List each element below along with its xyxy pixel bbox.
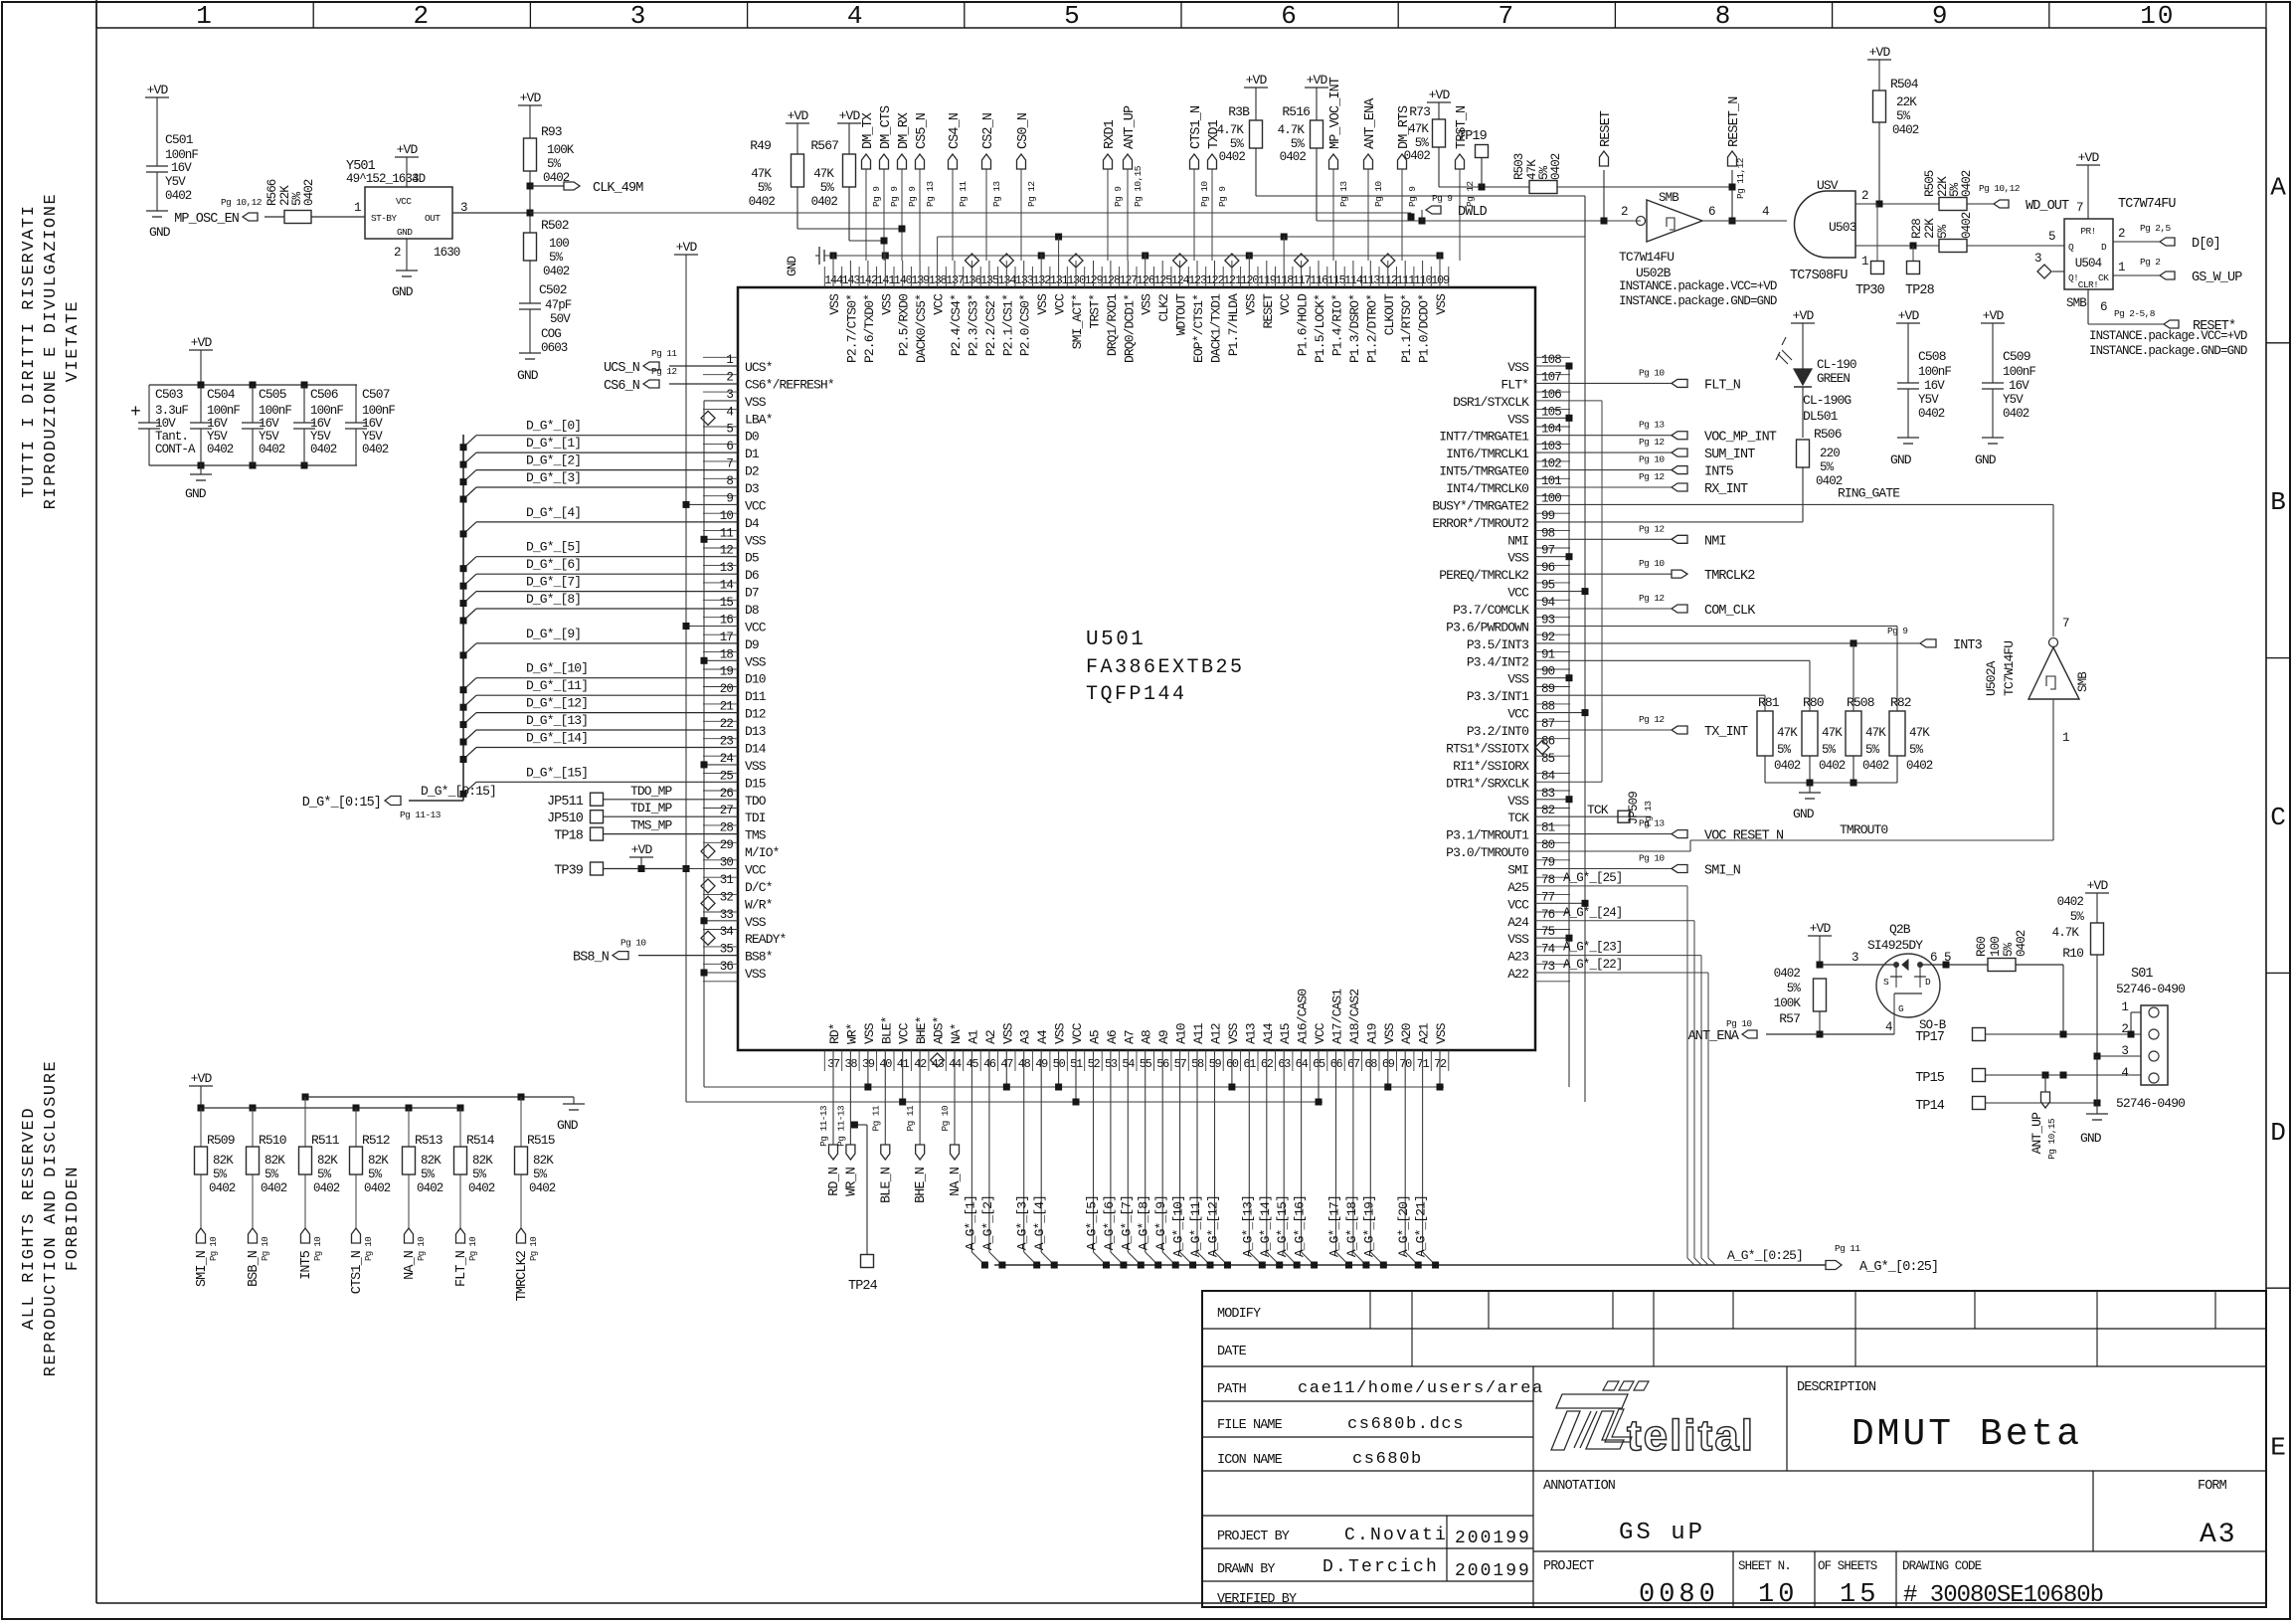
svg-text:D_G*_[15]: D_G*_[15] [526,765,588,780]
U501 pin 71 A21 [1417,1022,1432,1071]
svg-text:D_G*_[7]: D_G*_[7] [526,575,581,590]
net GS_W_UP [2113,257,2242,285]
svg-text:DRQ0/DCD1*: DRQ0/DCD1* [1122,294,1137,363]
net flag INT5 [299,1228,323,1280]
svg-text:A2: A2 [983,1030,998,1044]
svg-text:C505: C505 [259,387,286,402]
svg-text:10: 10 [1758,1580,1798,1610]
svg-text:A_G*_[5]: A_G*_[5] [1085,1195,1100,1250]
U501 pin 81 P3.1/TMROUT1 [1446,821,1554,843]
svg-text:Q: Q [2068,242,2074,253]
svg-text:A_G*_[19]: A_G*_[19] [1361,1195,1376,1257]
svg-text:D6: D6 [745,568,759,583]
test point TP19 [1458,129,1489,187]
title block field values [1298,1379,1544,1581]
net flag CS4_N [948,112,969,261]
svg-text:+VD: +VD [676,240,698,255]
net flag CTS1_N [1189,105,1210,261]
U501 pin 78 A25 [1507,873,1554,895]
U501 pin 95 VCC [1507,579,1554,601]
svg-text:C501: C501 [165,132,194,147]
test point TP14 [1915,1097,1985,1115]
net MP_OSC_EN [174,197,284,227]
wire A_G*_[9] [1153,1050,1179,1269]
resistor R512 [350,1108,391,1228]
svg-text:VCC: VCC [932,293,947,315]
U501 pin 137 P2.4/CS4* [946,273,965,356]
U501 pin 101 INT4/TMRCLK0 [1446,474,1561,496]
resistor R28 [1910,212,2065,252]
svg-text:A_G*_[14]: A_G*_[14] [1258,1195,1273,1257]
svg-text:A21: A21 [1417,1022,1432,1044]
svg-text:0402: 0402 [749,195,776,209]
U501 pin 62 A14 [1261,1022,1276,1071]
wire A_G*_[25] [1535,871,1694,1265]
U501 pin 55 A8 [1140,1030,1154,1071]
net flag TMRCLK2 [1535,558,1755,584]
svg-text:CS2_N: CS2_N [981,112,996,149]
wire D_G*_[13] [460,713,739,746]
svg-text:RD*: RD* [827,1023,842,1044]
U501 pin 107 FLT* [1500,370,1561,392]
U501 pin 20 D11 [720,682,767,704]
U501 pin 65 VCC [1313,1022,1327,1071]
svg-text:79: 79 [1541,856,1555,870]
svg-text:VCC: VCC [745,498,767,513]
test point TP24 [848,1122,878,1295]
svg-text:29: 29 [720,838,734,852]
svg-text:16V: 16V [259,417,279,431]
svg-text:A19: A19 [1364,1023,1379,1044]
svg-text:0402: 0402 [1892,123,1919,137]
net WR_N [835,1050,859,1196]
wire P3.4 INT2 [1535,660,1810,711]
svg-text:A_G*_[21]: A_G*_[21] [1414,1195,1429,1257]
svg-text:+VD: +VD [1898,308,1920,323]
svg-text:200199: 200199 [1455,1561,1531,1581]
svg-text:113: 113 [1361,273,1380,287]
svg-text:W/R*: W/R* [745,897,773,912]
capacitor C507 [345,385,395,465]
svg-text:P2.0/CS0*: P2.0/CS0* [1018,294,1033,356]
svg-text:35: 35 [720,943,734,957]
svg-text:CLK2: CLK2 [1156,294,1171,322]
svg-text:U501: U501 [1086,629,1146,651]
VCC rail right of U501 [1535,237,1589,1102]
svg-text:Pg 10: Pg 10 [364,1237,374,1261]
svg-text:25: 25 [720,769,734,783]
U501 pin 13 D6 [720,561,759,583]
left margin copyright text english [20,1060,83,1377]
svg-text:96: 96 [1541,561,1555,575]
svg-text:23: 23 [720,735,734,749]
svg-text:0402: 0402 [1219,150,1246,164]
svg-text:VSS: VSS [1000,1022,1015,1044]
left margin copyright text italian [20,193,83,510]
resistor R503 [1439,153,1733,193]
svg-text:VSS: VSS [827,293,842,315]
resistor R81 [1757,695,1801,783]
capacitor C509 [1975,308,2035,467]
top +VD bus [938,234,1585,241]
svg-text:Pg 10: Pg 10 [468,1237,478,1261]
svg-text:P1.3/DSRO*: P1.3/DSRO* [1347,294,1362,363]
net WD_OUT [1979,183,2069,214]
net flag TMRCLK2 [515,1228,539,1301]
svg-text:D_G*_[5]: D_G*_[5] [526,540,581,555]
svg-text:119: 119 [1258,273,1277,287]
wire D_G*_[4] [460,505,739,538]
svg-text:130: 130 [1067,273,1086,287]
wire D_G*_[0] [460,419,739,451]
svg-text:5: 5 [1064,1,1082,31]
svg-text:Pg 10: Pg 10 [1199,181,1210,207]
U501 pin 39 VSS [862,1022,877,1071]
net NA_N [940,1050,964,1196]
svg-text:U503: U503 [1829,220,1856,235]
svg-text:C509: C509 [2003,349,2030,364]
svg-text:MP_VOC_INT: MP_VOC_INT [1328,77,1343,149]
svg-text:P1.7/HLDA: P1.7/HLDA [1226,293,1241,356]
svg-text:U502A: U502A [1984,660,1999,696]
diamond marker pin 34 [701,931,715,945]
wire A_G*_[16] [1293,1050,1319,1269]
svg-text:A_G*_[4]: A_G*_[4] [1032,1195,1047,1250]
+VD rail left of U501 [674,240,1323,1106]
net flag DM_RTS [1397,105,1418,261]
svg-text:82K: 82K [213,1154,234,1168]
U501 pin 64 A16/CAS0 [1296,990,1311,1071]
svg-text:D: D [2270,1118,2286,1148]
svg-text:A3: A3 [1018,1030,1033,1044]
svg-text:TP17: TP17 [1915,1030,1945,1045]
svg-text:cs680b.dcs: cs680b.dcs [1347,1415,1465,1434]
svg-text:BS8*: BS8* [745,950,773,965]
svg-text:Pg 10,15: Pg 10,15 [1133,165,1144,207]
svg-text:CL-190G: CL-190G [1803,393,1851,408]
svg-text:D_G*_[6]: D_G*_[6] [526,557,581,572]
U501 pin 92 P3.5/INT3 [1467,631,1555,652]
svg-text:P2.3/CS3*: P2.3/CS3* [966,294,980,356]
svg-text:120: 120 [1240,273,1259,287]
svg-text:88: 88 [1541,700,1555,714]
svg-text:A_G*_[0:25]: A_G*_[0:25] [1859,1260,1938,1275]
U501 pin 23 D14 [720,735,767,757]
U501 pin 3 VSS [726,388,766,410]
svg-text:Pg 12: Pg 12 [1639,714,1665,725]
top GND bus [786,247,1444,276]
svg-text:24: 24 [720,752,734,766]
resistor R60 [1940,930,2063,1034]
svg-text:R514: R514 [466,1133,495,1148]
svg-text:19: 19 [720,665,734,679]
svg-text:A_G*_[12]: A_G*_[12] [1206,1195,1221,1257]
svg-text:A_G*_[3]: A_G*_[3] [1015,1195,1030,1250]
svg-text:PATH: PATH [1217,1382,1247,1397]
U501 pin 144 VSS [824,273,843,315]
svg-text:A_G*_[20]: A_G*_[20] [1396,1195,1411,1257]
U501 right pin ladder [1535,357,1570,982]
svg-text:NMI: NMI [1704,534,1726,549]
svg-text:33: 33 [720,908,734,922]
svg-text:GND: GND [557,1118,579,1133]
svg-text:139: 139 [911,273,930,287]
svg-text:0402: 0402 [165,189,192,203]
svg-text:P3.2/INT0: P3.2/INT0 [1467,724,1528,739]
svg-text:VSS: VSS [745,759,767,774]
U501 pin 91 P3.4/INT2 [1467,647,1555,669]
svg-text:WR_N: WR_N [844,1167,859,1196]
svg-text:47K: 47K [813,167,834,181]
svg-text:DTR1*/SRXCLK: DTR1*/SRXCLK [1446,776,1529,791]
capacitor C504 [190,385,240,465]
U501 pin 47 VSS [1000,1022,1015,1071]
svg-text:COG: COG [541,327,561,341]
svg-text:Y5V: Y5V [165,175,186,189]
U501 pin 85 RI1*/SSIORX [1453,752,1555,774]
svg-text:6: 6 [726,440,733,453]
resistor R82 [1889,695,1933,783]
U501 pin 8 D3 [726,474,759,496]
svg-text:Pg 10,12: Pg 10,12 [221,197,263,208]
resistor bank supply [189,1071,585,1133]
svg-text:0402: 0402 [1862,759,1889,773]
svg-text:144: 144 [824,273,843,287]
U501 pin 126 VSS [1137,273,1155,315]
svg-text:P3.4/INT2: P3.4/INT2 [1467,654,1528,669]
svg-text:127: 127 [1119,273,1138,287]
wire D_G*_[9] [460,627,739,659]
U501 pin 69 VSS [1382,1022,1397,1071]
svg-text:0402: 0402 [362,443,389,456]
svg-text:4: 4 [1885,1020,1892,1034]
flip-flop U504 [2064,150,2176,290]
svg-text:VSS: VSS [1382,1022,1397,1044]
svg-text:Pg 9: Pg 9 [1887,626,1908,636]
svg-text:Pg 12: Pg 12 [1639,437,1665,448]
svg-text:Pg 10: Pg 10 [1373,181,1384,207]
wire D_G*_[5] [460,540,739,573]
U501 pin 21 D12 [720,700,766,722]
svg-text:Pg 10: Pg 10 [417,1237,427,1261]
svg-text:R57: R57 [1779,1011,1800,1026]
svg-text:CONT-A: CONT-A [155,443,196,456]
svg-text:Pg 12: Pg 12 [1639,593,1665,604]
svg-text:A4: A4 [1035,1029,1050,1044]
svg-text:DRAWING CODE: DRAWING CODE [1902,1559,1982,1573]
svg-text:SMB: SMB [2066,296,2087,310]
wire A_G*_[14] [1258,1050,1283,1269]
U501 pin 100 BUSY*/TMRGATE2 [1432,491,1561,513]
svg-text:5%: 5% [2002,942,2016,957]
svg-text:DACK0/CS5*: DACK0/CS5* [914,294,929,363]
svg-text:1: 1 [726,353,733,367]
svg-text:VCC: VCC [1313,1022,1327,1044]
svg-text:Pg 12: Pg 12 [1639,471,1665,482]
svg-text:5%: 5% [265,1168,279,1181]
svg-text:FLT_N: FLT_N [454,1250,469,1287]
oscillator Y501 [346,142,530,299]
U501 pin 141 VSS [876,273,895,315]
U501 pin 24 VSS [720,752,767,774]
IC U501 body [738,287,1535,1050]
svg-text:SUM_INT: SUM_INT [1704,448,1755,462]
svg-text:100nF: 100nF [1918,365,1951,379]
svg-text:R3B: R3B [1228,104,1250,119]
svg-text:D0: D0 [745,430,759,445]
net flag RESET_N [1727,96,1746,225]
resistor R514 [454,1108,495,1228]
svg-text:78: 78 [1541,873,1555,887]
annotation GS uP [1543,1479,1705,1546]
svg-text:Pg 10: Pg 10 [313,1237,323,1261]
svg-text:D2: D2 [745,464,759,479]
svg-text:16: 16 [720,614,734,628]
svg-text:52746-0490: 52746-0490 [2116,982,2185,996]
svg-text:BS8_N: BS8_N [573,951,610,966]
svg-text:3: 3 [2034,252,2041,266]
svg-text:+VD: +VD [839,108,861,123]
svg-text:TP24: TP24 [848,1279,878,1294]
U501 pin 79 SMI [1507,856,1554,878]
svg-text:WD_OUT: WD_OUT [2026,199,2069,214]
svg-text:0402: 0402 [364,1181,391,1195]
svg-text:R515: R515 [527,1133,555,1148]
svg-text:DACK1/TXD1: DACK1/TXD1 [1209,293,1224,363]
svg-text:MODIFY: MODIFY [1217,1307,1261,1322]
svg-text:1: 1 [2062,731,2069,745]
wire to U502B input [1317,213,1641,225]
svg-text:9: 9 [726,491,733,505]
svg-text:93: 93 [1541,614,1555,628]
svg-text:R506: R506 [1814,427,1842,442]
svg-text:TUTTI I DIRITTI RISERVATI: TUTTI I DIRITTI RISERVATI [20,204,39,497]
svg-text:100: 100 [549,237,569,251]
svg-text:FLT*: FLT* [1500,377,1528,392]
svg-text:124: 124 [1171,273,1190,287]
svg-text:+VD: +VD [788,108,809,123]
wire A_G*_[11] [1188,1050,1214,1269]
svg-text:CS6*/REFRESH*: CS6*/REFRESH* [745,377,834,392]
svg-text:100nF: 100nF [165,148,198,162]
U501 pin 60 VSS [1226,1022,1241,1071]
svg-text:+VD: +VD [191,335,213,350]
svg-text:80: 80 [1541,838,1555,852]
U501 pin 111 P1.1/RTSO* [1396,273,1415,363]
svg-text:ALL RIGHTS RESERVED: ALL RIGHTS RESERVED [20,1107,39,1330]
resistor R509 [195,1108,236,1228]
svg-text:P3.1/TMROUT1: P3.1/TMROUT1 [1446,828,1529,843]
svg-text:D4: D4 [745,516,760,531]
svg-text:VSS: VSS [1035,293,1050,315]
svg-text:12: 12 [720,544,734,558]
svg-text:95: 95 [1541,579,1555,593]
capacitor C501 [145,83,198,240]
svg-text:A_G*_[9]: A_G*_[9] [1153,1195,1168,1250]
svg-text:5%: 5% [1415,136,1430,150]
svg-text:0402: 0402 [529,1181,556,1195]
svg-text:ANT_UP: ANT_UP [2029,1112,2044,1155]
svg-text:GND: GND [392,284,414,299]
svg-text:VSS: VSS [745,395,767,410]
svg-text:Pg 12: Pg 12 [651,366,677,377]
svg-text:0402: 0402 [1960,212,1974,239]
svg-text:3: 3 [726,388,733,402]
svg-text:D14: D14 [745,742,767,757]
svg-text:27: 27 [720,804,734,817]
U501 pin 57 A10 [1174,1023,1189,1071]
net BS8_N [573,938,738,966]
svg-text:CK: CK [2098,272,2109,283]
svg-text:VCC: VCC [1507,586,1529,601]
svg-text:A7: A7 [1122,1030,1137,1044]
svg-text:D_G*_[8]: D_G*_[8] [526,592,581,607]
svg-text:47K: 47K [751,167,772,181]
svg-text:20: 20 [720,682,734,696]
svg-text:Pg 10: Pg 10 [529,1237,539,1261]
svg-text:0402: 0402 [2003,407,2029,421]
U501 pin 105 VSS [1507,405,1561,427]
svg-text:1: 1 [1861,255,1868,269]
svg-text:A: A [2270,172,2286,202]
resistor R80 [1802,695,1846,783]
svg-text:Pg 13: Pg 13 [1639,420,1665,431]
svg-text:DWLD: DWLD [1458,205,1488,220]
svg-text:116: 116 [1310,273,1328,287]
svg-text:TMROUT0: TMROUT0 [1840,822,1887,837]
svg-text:Pg 11-13: Pg 11-13 [400,810,441,820]
svg-text:VCC: VCC [1507,897,1529,912]
test point TP17 [1915,1028,1985,1046]
svg-text:CTS1_N: CTS1_N [1189,105,1204,149]
svg-text:D9: D9 [745,637,759,652]
svg-text:200199: 200199 [1455,1529,1531,1548]
net flag DM_CTS [879,105,900,261]
svg-text:ADS*: ADS* [932,1016,947,1044]
svg-text:+VD: +VD [1429,88,1451,102]
svg-text:132: 132 [1032,273,1051,287]
svg-text:GND: GND [1793,807,1815,821]
wire D_G*_[8] [460,592,739,625]
svg-text:VSS: VSS [1434,293,1449,315]
svg-text:90: 90 [1541,665,1555,679]
form A3 [2198,1479,2237,1550]
svg-text:PEREQ/TMRCLK2: PEREQ/TMRCLK2 [1439,568,1528,583]
capacitor C506 [293,385,343,465]
U501 pin 76 A24 [1507,908,1554,930]
svg-text:115: 115 [1327,273,1346,287]
wire D_G*_[12] [460,696,739,729]
svg-text:SMB: SMB [2076,671,2090,692]
svg-text:VSS: VSS [745,533,767,548]
U501 pin 35 BS8* [720,943,773,965]
svg-text:D5: D5 [745,551,759,566]
net flag SMI_N [1535,853,1741,879]
U501 pin 38 WR* [844,1023,859,1071]
U501 pin 58 A11 [1191,1022,1206,1071]
U501 pin 102 INT5/TMRGATE0 [1439,457,1561,479]
svg-text:DL501: DL501 [1803,409,1839,424]
U501 pin 43 ADS* [932,1016,947,1071]
U501 pin 33 VSS [720,908,767,930]
svg-text:VSS: VSS [1507,672,1529,687]
U501 pin 6 D1 [726,440,760,461]
column reference numbers 1-10 [96,1,2266,31]
svg-text:VOC_MP_INT: VOC_MP_INT [1704,431,1777,446]
svg-text:128: 128 [1102,273,1121,287]
svg-text:99: 99 [1541,509,1555,523]
svg-text:A_G*_[0:25]: A_G*_[0:25] [1727,1248,1803,1263]
